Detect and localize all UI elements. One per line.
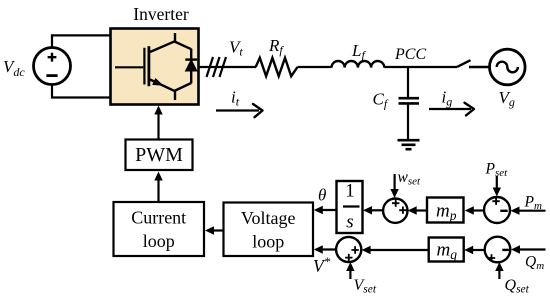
svg-text:ig: ig (442, 88, 453, 109)
Vstar label (313, 254, 331, 276)
three-phase slash marks (207, 57, 227, 77)
DC source Vdc (34, 48, 71, 85)
svg-text:Vt: Vt (229, 38, 243, 59)
current loop block (114, 202, 205, 256)
it label (231, 88, 240, 109)
Qset input arrow (495, 262, 503, 279)
resistor Rf (256, 58, 298, 76)
svg-text:Current: Current (131, 208, 186, 228)
Qm input arrow (511, 245, 546, 253)
wire mp to S1 (408, 206, 427, 214)
wire current loop to PWM (154, 172, 162, 203)
droop gain block mq (429, 238, 464, 263)
wire dc top (52, 35, 111, 47)
svg-text:PCC: PCC (394, 46, 426, 63)
voltage loop block (224, 203, 314, 257)
droop gain block mp (427, 198, 464, 224)
svg-text:Qset: Qset (505, 277, 530, 296)
wire S3 to voltage loop (Vstar) (314, 245, 336, 253)
svg-text:wset: wset (398, 169, 422, 188)
svg-text:Vg: Vg (499, 88, 515, 109)
wire S1 to integrator (363, 206, 383, 214)
summing junction S2 (active power) (484, 197, 510, 223)
Qm label (525, 254, 544, 273)
svg-text:Pset: Pset (485, 161, 509, 180)
summing junction S3 (voltage) (336, 237, 361, 262)
Qset label (505, 277, 530, 296)
node PCC label (394, 46, 426, 63)
svg-text:Voltage: Voltage (241, 208, 296, 228)
svg-text:Rf: Rf (268, 36, 284, 57)
summing junction S4 (reactive power) (485, 237, 511, 263)
svg-text:Qm: Qm (525, 254, 544, 273)
node Vt label (229, 38, 243, 59)
inverter block (111, 29, 199, 105)
wset input arrow (390, 174, 398, 198)
wire Rf to Lf (298, 66, 332, 68)
Vg label (499, 88, 515, 109)
svg-text:Lf: Lf (351, 41, 366, 62)
wire S4 to mq (464, 246, 485, 254)
wire inverter output (199, 66, 257, 68)
Vdc label (3, 57, 25, 79)
theta label (318, 186, 326, 205)
wire PWM to inverter (154, 106, 162, 140)
Pset label (485, 161, 509, 180)
wire Lf to switch (384, 66, 457, 68)
PWM block (126, 140, 193, 171)
summing junction S1 (frequency) (383, 199, 407, 223)
svg-text:loop: loop (252, 232, 284, 252)
switch (breaker) (457, 60, 489, 67)
current ig arrow (429, 103, 474, 116)
Pset input arrow (493, 176, 501, 197)
wire integrator to voltage loop (theta) (314, 206, 337, 214)
svg-text:PWM: PWM (135, 144, 183, 166)
current it arrow (216, 104, 263, 117)
Vset input arrow (346, 262, 354, 279)
svg-text:it: it (231, 88, 240, 109)
wire dc bottom (52, 85, 111, 98)
wire voltage loop to current loop (205, 226, 224, 234)
wire PCC to capacitor (407, 67, 409, 98)
label Inverter (133, 4, 189, 24)
Lf value label (351, 41, 366, 62)
transistor Q1 (IGBT with antiparallel diode) (115, 33, 197, 100)
svg-text:Vdc: Vdc (3, 57, 25, 79)
svg-text:Cf: Cf (373, 90, 389, 111)
Pm input arrow (511, 207, 546, 215)
Pm label (524, 194, 542, 213)
Rf value label (268, 36, 284, 57)
svg-text:1: 1 (345, 181, 355, 202)
Cf value label (373, 90, 389, 111)
svg-text:loop: loop (143, 231, 175, 251)
wire S2 to mp (465, 206, 484, 214)
svg-text:Inverter: Inverter (133, 4, 189, 24)
svg-text:Vset: Vset (354, 277, 377, 296)
Vset label (354, 277, 377, 296)
svg-text:s: s (346, 212, 353, 233)
svg-text:Pm: Pm (524, 194, 542, 213)
integrator block 1/s (337, 181, 363, 234)
ig label (442, 88, 453, 109)
wire capacitor to ground (407, 103, 409, 140)
svg-text:V*: V* (313, 254, 331, 276)
AC source Vg (490, 49, 526, 85)
ground (398, 140, 420, 149)
wset label (398, 169, 422, 188)
svg-text:θ: θ (318, 186, 326, 205)
capacitor Cf (399, 98, 420, 103)
wire mq to S3 (362, 246, 429, 254)
inductor Lf (332, 61, 385, 68)
